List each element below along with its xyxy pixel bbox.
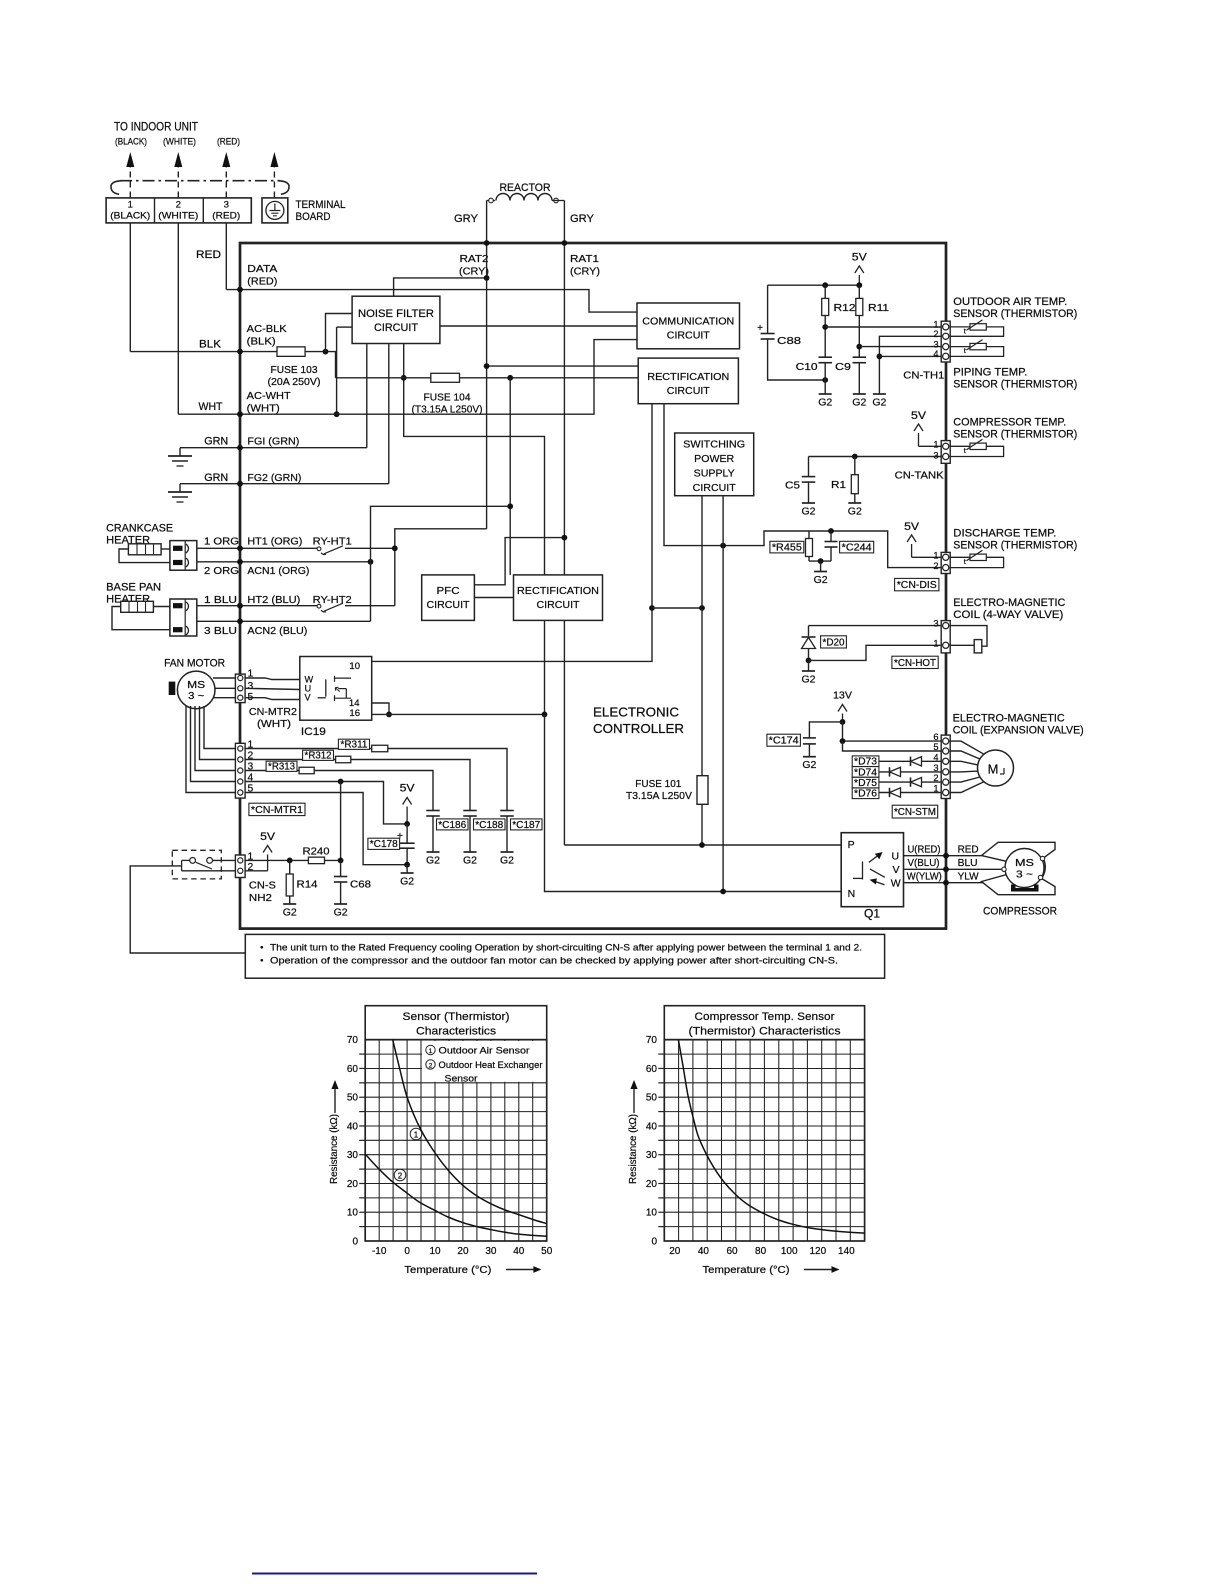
power 5V arrow at CN-S pin2: [245, 870, 268, 872]
wire dashed lead 2 to indoor unit with arrow: [177, 163, 179, 198]
wire HT2 row: [197, 605, 318, 607]
svg-text:CIRCUIT: CIRCUIT: [693, 482, 737, 494]
svg-text:*R313: *R313: [268, 762, 295, 773]
svg-text:80: 80: [755, 1246, 767, 1257]
svg-text:13V: 13V: [833, 691, 852, 702]
svg-text:COMMUNICATION: COMMUNICATION: [642, 316, 734, 328]
wire CN-S external loop to note box: [130, 866, 245, 953]
svg-text:M: M: [988, 762, 999, 777]
wire dashed lead 4 to indoor unit with arrow: [273, 163, 275, 198]
svg-text:(20A 250V): (20A 250V): [268, 377, 321, 388]
wire CN-S pin1 row with R240: [245, 859, 308, 861]
power 5V arrow CN-DIS: [911, 544, 913, 557]
svg-text:3: 3: [933, 763, 938, 773]
IC19 internal igbt symbol: [325, 679, 327, 696]
capacitor C5: [808, 457, 810, 477]
left graph curve marker 2: [394, 1169, 406, 1181]
label *R311 boxed: [338, 739, 369, 749]
wire base pan heater leads: [153, 606, 170, 608]
wire ACN2 row: [197, 620, 371, 622]
fan motor MS 3~: [169, 682, 176, 695]
svg-text:DATA: DATA: [247, 263, 277, 275]
svg-text:C5: C5: [785, 480, 800, 492]
resistor R11: [856, 282, 862, 288]
right graph y axis arrow and label: [633, 1082, 635, 1113]
4-way valve coil load: [950, 626, 987, 647]
wire noise filter right pin to communication circuit: [440, 325, 637, 327]
svg-text:V: V: [305, 693, 312, 703]
compressor motor MS 3~: [1005, 849, 1044, 888]
label *CN-STM boxed: [892, 805, 938, 818]
svg-text:(T3.15A L250V): (T3.15A L250V): [412, 405, 483, 416]
svg-text:G2: G2: [283, 907, 297, 919]
label *D74 boxed: [852, 767, 879, 778]
svg-text:RECTIFICATION: RECTIFICATION: [517, 585, 599, 597]
svg-text:RED: RED: [958, 845, 979, 856]
svg-text:5: 5: [933, 742, 938, 752]
svg-text:70: 70: [646, 1035, 658, 1046]
svg-text:2: 2: [933, 329, 938, 339]
svg-text:1: 1: [414, 1131, 419, 1140]
wire CN-HOT pin1 row: [809, 645, 942, 660]
svg-text:Temperature (°C): Temperature (°C): [703, 1265, 790, 1276]
svg-text:SENSOR (THERMISTOR): SENSOR (THERMISTOR): [953, 429, 1077, 441]
left graph legend: [422, 1041, 546, 1082]
svg-text:BLU: BLU: [958, 858, 978, 869]
svg-text:*C187: *C187: [512, 820, 540, 831]
svg-text:(WHT): (WHT): [247, 403, 280, 415]
svg-text:20: 20: [347, 1179, 359, 1190]
wire terminal 3 (RED) down to DATA row: [225, 223, 227, 290]
wire fuse104 row to rectification circuit: [336, 377, 639, 379]
wire CN-DIS pin2 row to R455 C244: [831, 531, 941, 568]
svg-text:*R455: *R455: [772, 543, 802, 554]
svg-text:Sensor (Thermistor): Sensor (Thermistor): [403, 1011, 510, 1023]
svg-text:•: •: [260, 943, 263, 954]
svg-text:P: P: [848, 839, 855, 851]
connector CN-MTR1: [235, 743, 245, 798]
fuse FUSE 101: [697, 776, 708, 805]
capacitor C10: [818, 356, 832, 358]
wire dashed lead 1 to indoor unit with arrow: [129, 163, 131, 198]
svg-text:(RED): (RED): [217, 137, 240, 148]
svg-text:FUSE 101: FUSE 101: [635, 779, 681, 790]
svg-text:1: 1: [429, 1048, 433, 1055]
wire 13V to CN-STM pin6 and pin5: [843, 722, 942, 741]
wire switching supply to N row: [722, 496, 724, 892]
svg-text:CRANKCASE: CRANKCASE: [106, 523, 173, 535]
svg-text:*R312: *R312: [305, 751, 332, 762]
svg-text:*D74: *D74: [854, 767, 878, 778]
fuse FUSE 103: [277, 347, 305, 357]
svg-text:3 ~: 3 ~: [188, 691, 204, 702]
svg-text:30: 30: [485, 1246, 497, 1257]
resistor R311: [372, 745, 388, 752]
relay RY-HT1 contact: [317, 547, 321, 551]
svg-text:Resistance (kΩ): Resistance (kΩ): [628, 1114, 639, 1184]
wire N row to Q1: [545, 714, 842, 891]
wire CN-DIS pin1 row: [912, 556, 942, 558]
thermistor compressor temp sensor: [950, 446, 1003, 456]
cable bundle dash-dot line: [120, 180, 280, 182]
svg-text:FGI (GRN): FGI (GRN): [247, 436, 299, 448]
earth ground symbol FG2: [179, 484, 181, 492]
svg-text:(BLACK): (BLACK): [110, 211, 150, 221]
left graph curve marker 1: [410, 1128, 422, 1140]
CN-S dashed box with switch: [172, 850, 221, 879]
svg-text:G2: G2: [802, 759, 816, 771]
svg-text:SENSOR (THERMISTOR): SENSOR (THERMISTOR): [953, 379, 1077, 391]
wire CN-HOT pin3 row: [809, 625, 942, 627]
svg-text:*CN-DIS: *CN-DIS: [897, 580, 937, 591]
svg-text:G2: G2: [848, 506, 862, 518]
svg-text:The unit turn to the Rated Fre: The unit turn to the Rated Frequency coo…: [270, 943, 862, 954]
svg-text:NOISE FILTER: NOISE FILTER: [358, 308, 434, 320]
svg-text:TO INDOOR UNIT: TO INDOOR UNIT: [114, 120, 198, 134]
svg-text:G2: G2: [801, 506, 815, 518]
terminal board earth terminal: [262, 198, 288, 223]
svg-text:0: 0: [352, 1237, 358, 1248]
wire BLK row: [130, 352, 335, 378]
expansion valve motor M: [950, 741, 984, 754]
svg-text:30: 30: [646, 1150, 658, 1161]
diode *D73 row pin4: [853, 760, 941, 762]
resistor R1: [854, 457, 856, 475]
wire FGI row: [180, 447, 367, 449]
svg-text:R1: R1: [831, 479, 846, 491]
wire terminal 2 (WHITE) down to WHT row: [177, 223, 179, 414]
label *D75 boxed: [852, 777, 879, 788]
wire rectification to discharge circuit feed: [664, 404, 809, 546]
wire dashed lead 3 to indoor unit with arrow: [225, 163, 227, 198]
right graph y axis ticks: [658, 1053, 664, 1055]
svg-text:6: 6: [933, 732, 938, 742]
svg-text:FUSE 103: FUSE 103: [271, 365, 318, 376]
svg-text:1: 1: [933, 550, 938, 560]
label *D73 boxed: [852, 756, 879, 767]
footer blue underline: [252, 1573, 537, 1575]
power 5V arrow CN-TANK: [918, 433, 920, 446]
wire ACN1 row: [197, 561, 371, 563]
connector CN-HOT: [941, 621, 950, 653]
svg-text:ELECTRONIC: ELECTRONIC: [593, 705, 679, 720]
rectification circuit box: [638, 358, 738, 404]
svg-text:RED: RED: [196, 249, 221, 261]
wire DATA row to communication circuit: [226, 290, 637, 313]
svg-text:TERMINAL: TERMINAL: [296, 199, 346, 211]
thermistor piping temp sensor: [950, 347, 1003, 357]
node RAT2 vertical: [486, 243, 488, 529]
svg-text:1 ORG: 1 ORG: [204, 536, 239, 548]
svg-text:Characteristics: Characteristics: [416, 1026, 496, 1038]
rectification circuit 2 box: [514, 575, 603, 621]
svg-text:FG2 (GRN): FG2 (GRN): [247, 472, 301, 484]
wire noise filter left pin2 to WHT row: [336, 327, 338, 414]
svg-text:(RED): (RED): [212, 211, 240, 221]
wire switching supply to fuse101 and P row: [701, 496, 703, 776]
wire terminal 1 (BLACK) down to BLK row: [129, 223, 131, 352]
right graph title box: [664, 1006, 864, 1040]
wire noise filter top pin to RAT2: [394, 278, 487, 296]
svg-text:AC-WHT: AC-WHT: [247, 390, 292, 402]
svg-text:0: 0: [404, 1246, 410, 1257]
svg-text:GRY: GRY: [454, 213, 478, 225]
wire CN-TH1 pin1 row: [825, 326, 941, 328]
svg-text:U(RED): U(RED): [908, 845, 941, 856]
svg-text:(BLACK): (BLACK): [115, 137, 147, 148]
svg-text:Compressor Temp. Sensor: Compressor Temp. Sensor: [695, 1011, 835, 1023]
svg-text:R12: R12: [834, 302, 856, 314]
connector CN-S: [235, 855, 245, 878]
svg-text:ELECTRO-MAGNETIC: ELECTRO-MAGNETIC: [953, 597, 1065, 609]
svg-text:V: V: [893, 864, 900, 876]
resistor R12: [824, 285, 826, 298]
wire CN-TH1 pin4 row: [879, 355, 941, 357]
svg-text:U: U: [892, 851, 900, 863]
svg-text:(BLK): (BLK): [247, 336, 276, 348]
connector CN-DIS: [941, 552, 950, 573]
wire rect circuit bottom link: [652, 607, 702, 609]
svg-text:MS: MS: [187, 680, 205, 691]
svg-text:3: 3: [933, 450, 938, 460]
svg-text:3: 3: [933, 339, 938, 349]
svg-text:YLW: YLW: [958, 872, 979, 883]
svg-text:(CRY): (CRY): [459, 266, 489, 278]
wire reactor left leg RAT2 drop: [486, 201, 488, 244]
svg-text:C68: C68: [350, 879, 371, 891]
left graph title box: [365, 1006, 547, 1040]
svg-text:•: •: [260, 956, 263, 967]
label *CN-DIS boxed: [895, 578, 939, 590]
wire CN-TH1 pin2 row to ground: [879, 336, 941, 394]
svg-text:G2: G2: [818, 397, 832, 409]
svg-text:120: 120: [809, 1246, 826, 1257]
svg-text:10: 10: [347, 1208, 359, 1219]
svg-text:IC19: IC19: [301, 726, 326, 738]
svg-text:3: 3: [933, 619, 938, 629]
wire R313 row pin3: [245, 771, 433, 811]
svg-text:Outdoor Heat Exchanger: Outdoor Heat Exchanger: [439, 1060, 543, 1070]
svg-text:1 BLU: 1 BLU: [204, 594, 237, 606]
svg-text:2: 2: [933, 773, 938, 783]
svg-text:RAT1: RAT1: [570, 253, 599, 265]
diode *D75 row pin2: [853, 781, 941, 783]
svg-text:GRY: GRY: [570, 213, 594, 225]
earth ground symbol FGI: [179, 448, 181, 456]
svg-text:Sensor: Sensor: [445, 1073, 478, 1083]
svg-text:20: 20: [669, 1246, 681, 1257]
crankcase heater element: [128, 544, 161, 555]
svg-text:(CRY): (CRY): [570, 266, 600, 278]
wire PFC to rectification circuit 2: [474, 597, 513, 599]
svg-text:G2: G2: [463, 855, 477, 867]
svg-text:140: 140: [838, 1246, 855, 1257]
svg-text:Temperature (°C): Temperature (°C): [404, 1265, 491, 1276]
svg-text:20: 20: [646, 1179, 658, 1190]
wire CN-TANK pin3 row with C5 R1: [809, 456, 942, 458]
left graph y axis arrow and label: [334, 1082, 336, 1113]
svg-text:SWITCHING: SWITCHING: [683, 439, 745, 451]
svg-text:3: 3: [248, 681, 254, 692]
svg-text:WHT: WHT: [199, 401, 223, 413]
svg-text:Q1: Q1: [864, 909, 880, 921]
svg-text:5V: 5V: [260, 831, 276, 843]
svg-text:(Thermistor) Characteristics: (Thermistor) Characteristics: [689, 1026, 841, 1038]
svg-text:C88: C88: [777, 335, 801, 347]
svg-text:60: 60: [347, 1064, 359, 1075]
wire CN-TANK pin1 row: [919, 445, 942, 447]
wire CN-S pin2 through dashed box: [182, 870, 236, 872]
svg-text:G2: G2: [852, 397, 866, 409]
svg-text:*D76: *D76: [854, 789, 878, 800]
svg-text:N: N: [848, 888, 856, 900]
svg-text:1: 1: [933, 784, 938, 794]
svg-text:NH2: NH2: [249, 892, 272, 904]
svg-text:PFC: PFC: [437, 585, 460, 597]
svg-text:SENSOR (THERMISTOR): SENSOR (THERMISTOR): [953, 540, 1077, 552]
svg-text:FUSE 104: FUSE 104: [424, 393, 471, 404]
PFC circuit box: [422, 575, 475, 621]
wire noise filter left pin to BLK row: [326, 314, 353, 352]
diode *D76 row pin1: [853, 792, 941, 794]
wire R240 to pin4 row riser and C68: [325, 859, 341, 861]
svg-text:5V: 5V: [911, 410, 927, 422]
svg-text:BOARD: BOARD: [296, 211, 331, 223]
svg-text:ACN1 (ORG): ACN1 (ORG): [247, 565, 309, 577]
diode *D74 row pin3: [853, 771, 941, 773]
svg-text:*D75: *D75: [854, 778, 878, 789]
wire switch to CN-S pin1: [213, 859, 236, 861]
svg-text:50: 50: [646, 1093, 658, 1104]
wire pin4 row to 5V node: [245, 782, 407, 824]
svg-text:G2: G2: [500, 855, 514, 867]
svg-text:OUTDOOR AIR TEMP.: OUTDOOR AIR TEMP.: [953, 296, 1067, 308]
svg-text:*C188: *C188: [475, 820, 503, 831]
wire IC19 pin14: [372, 703, 389, 714]
svg-text:COIL (4-WAY VALVE): COIL (4-WAY VALVE): [953, 609, 1063, 621]
svg-text:2: 2: [176, 200, 181, 211]
svg-text:R240: R240: [303, 846, 330, 858]
wire IC19 pin10 to rectification circuit: [372, 404, 652, 662]
svg-text:20: 20: [457, 1246, 469, 1257]
svg-text:2: 2: [429, 1063, 433, 1070]
svg-text:Outdoor Air Sensor: Outdoor Air Sensor: [439, 1046, 530, 1056]
svg-text:BASE PAN: BASE PAN: [106, 582, 161, 594]
svg-text:COMPRESSOR TEMP.: COMPRESSOR TEMP.: [953, 417, 1066, 429]
wire FG2 row: [180, 483, 389, 485]
svg-text:CIRCUIT: CIRCUIT: [427, 599, 471, 611]
svg-text:(WHT): (WHT): [257, 718, 291, 730]
label *D76 boxed: [852, 788, 879, 799]
svg-text:2: 2: [398, 1172, 403, 1181]
power 5V arrow at C178: [406, 807, 408, 824]
wire CN-MTR2 to IC19: [245, 678, 300, 680]
thermistor discharge temp sensor: [950, 557, 1003, 567]
electronic controller outer box: [240, 243, 946, 929]
svg-text:V(BLU): V(BLU): [908, 858, 940, 869]
svg-text:COMPRESSOR: COMPRESSOR: [983, 906, 1057, 918]
svg-text:(RED): (RED): [247, 276, 277, 288]
svg-text:W: W: [891, 878, 901, 890]
svg-text:40: 40: [513, 1246, 525, 1257]
svg-text:*C244: *C244: [842, 543, 872, 554]
svg-text:CN-MTR2: CN-MTR2: [249, 706, 297, 718]
svg-text:CIRCUIT: CIRCUIT: [667, 330, 711, 342]
terminal board 3-pin block: [106, 198, 251, 223]
svg-text:30: 30: [347, 1150, 359, 1161]
wire AC neutral to rectification circuit 2: [509, 378, 511, 575]
thermistor outdoor air sensor: [950, 327, 1003, 336]
svg-text:*D20: *D20: [823, 637, 845, 648]
capacitor C88 polarized: [767, 285, 769, 333]
svg-text:G2: G2: [400, 876, 414, 888]
diode *D20: [808, 626, 810, 636]
svg-text:10: 10: [646, 1208, 658, 1219]
wire CN-TH1 pin3 row: [859, 346, 941, 348]
svg-text:HT2 (BLU): HT2 (BLU): [247, 594, 300, 606]
svg-text:16: 16: [349, 708, 360, 719]
wire HT1 row: [197, 547, 318, 549]
relay RY-HT2 contact: [317, 604, 321, 608]
svg-text:RAT2: RAT2: [460, 253, 489, 265]
svg-text:Resistance (kΩ): Resistance (kΩ): [329, 1114, 340, 1184]
base pan heater element: [121, 601, 154, 612]
wire R311 row pin1: [245, 749, 507, 811]
svg-text:G2: G2: [872, 397, 886, 409]
svg-text:T3.15A L250V: T3.15A L250V: [626, 791, 692, 802]
svg-text:2 ORG: 2 ORG: [204, 565, 239, 577]
svg-text:4: 4: [933, 752, 938, 762]
svg-text:PIPING TEMP.: PIPING TEMP.: [953, 367, 1027, 379]
left graph curve 1 outdoor air sensor: [393, 1040, 547, 1224]
wire V row to compressor: [904, 868, 1003, 870]
svg-text:CN-TANK: CN-TANK: [895, 470, 944, 482]
svg-text:C10: C10: [796, 361, 818, 373]
svg-text:DISCHARGE TEMP.: DISCHARGE TEMP.: [953, 528, 1056, 540]
svg-text:Operation of the compressor an: Operation of the compressor and the outd…: [270, 956, 838, 967]
wire 5V rail with C88 R12 R11: [768, 284, 860, 286]
wire RAT1 to PFC circuit: [474, 538, 564, 585]
capacitor *C187: [500, 810, 514, 812]
svg-text:AC-BLK: AC-BLK: [247, 323, 287, 335]
capacitor *C174: [809, 722, 842, 738]
capacitor *C186: [426, 810, 440, 812]
resistor R312: [336, 756, 351, 763]
svg-text:GRN: GRN: [204, 472, 228, 484]
wire U row to compressor: [904, 855, 984, 857]
wire IC19 pin16 to N rail: [372, 713, 545, 715]
svg-text:COIL (EXPANSION VALVE): COIL (EXPANSION VALVE): [953, 725, 1084, 737]
node RAT1 vertical: [563, 243, 565, 845]
label *CN-HOT boxed: [892, 656, 938, 668]
svg-text:*R311: *R311: [340, 740, 367, 751]
svg-text:RY-HT1: RY-HT1: [313, 536, 352, 548]
wire RAT2 to rectification circuit: [487, 365, 639, 367]
svg-text:40: 40: [646, 1121, 658, 1132]
svg-text:1: 1: [933, 439, 938, 449]
svg-text:4: 4: [933, 349, 938, 359]
communication circuit box: [637, 303, 740, 349]
left graph plot grid: [378, 1040, 380, 1241]
svg-text:G2: G2: [814, 574, 828, 586]
wire fan motor to CN-MTR2 pins: [213, 677, 235, 679]
svg-text:R11: R11: [868, 302, 889, 314]
wire WHT row to communication circuit: [178, 340, 637, 415]
svg-text:*C174: *C174: [769, 736, 799, 747]
label *R313 boxed: [266, 761, 297, 771]
svg-text:50: 50: [347, 1093, 359, 1104]
resistor R14: [289, 860, 291, 874]
